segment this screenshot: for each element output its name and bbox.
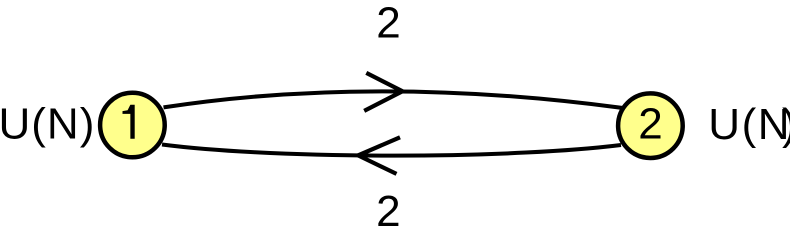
- svg-text:U(N): U(N): [0, 100, 95, 149]
- arrowhead on top edge (points right): [364, 73, 402, 111]
- svg-text:2: 2: [638, 100, 662, 149]
- node 1 circle: [100, 93, 165, 158]
- arrowhead on bottom edge (points left): [358, 137, 400, 174]
- svg-text:2: 2: [376, 0, 400, 47]
- svg-text:): ): [782, 100, 790, 149]
- wire: top edge from node 1 to node 2: [164, 91, 623, 108]
- svg-text:2: 2: [376, 187, 400, 236]
- node 1 label "1" (helvetica-style, no foot serif): [123, 105, 135, 139]
- svg-text:U(N: U(N: [708, 100, 790, 149]
- node 2 circle: [618, 93, 683, 158]
- wire: bottom edge from node 2 to node 1: [162, 145, 621, 156]
